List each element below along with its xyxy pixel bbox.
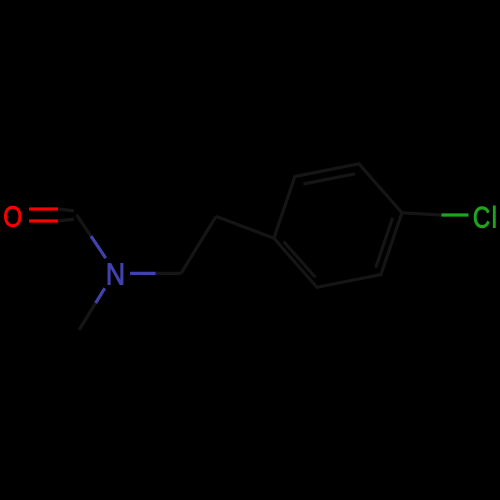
aromatic inner line R-BR: [376, 218, 393, 268]
bond CH2b-C(ipso): [216, 216, 274, 238]
bond N-CH2a carbon half: [156, 272, 182, 275]
bond C(para)-Cl carbon half: [402, 213, 442, 215]
bond N-CH3 nitrogen half: [96, 288, 105, 303]
svg-text:Cl: Cl: [473, 200, 497, 234]
bond C1=O double bond red halves: [29, 209, 58, 221]
aromatic inner line TL-TR: [303, 174, 355, 184]
aromatic inner line BL-ipso: [284, 242, 316, 278]
bond N-CH2a nitrogen half: [130, 272, 155, 275]
benzene ring outline: [274, 164, 402, 287]
svg-text:O: O: [3, 201, 22, 233]
bond CH2a-CH2b: [181, 216, 216, 273]
bond C(para)-Cl chlorine half: [441, 213, 468, 216]
bond C1-N nitrogen half: [91, 236, 106, 258]
bond C1=O double bond carbon halves: [58, 209, 74, 221]
bond N-CH3 carbon half: [79, 303, 96, 330]
svg-text:N: N: [106, 258, 125, 292]
bond C1-N carbon half: [77, 215, 92, 236]
